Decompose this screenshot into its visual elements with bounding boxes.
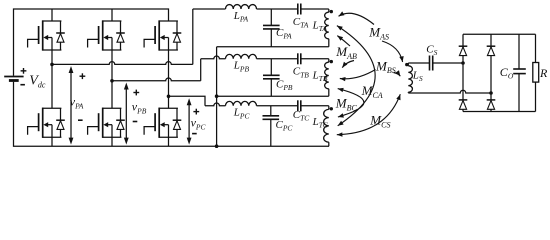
svg-text:CS: CS — [426, 44, 437, 58]
svg-text:CO: CO — [500, 65, 514, 81]
svg-text:MAB: MAB — [335, 44, 357, 61]
svg-text:vPA: vPA — [70, 95, 84, 111]
svg-text:MBS: MBS — [375, 58, 396, 75]
svg-text:Vdc: Vdc — [29, 74, 46, 90]
svg-text:LS: LS — [412, 69, 423, 83]
svg-text:CTA: CTA — [293, 16, 309, 30]
svg-text:LPC: LPC — [233, 107, 251, 121]
svg-text:CPA: CPA — [276, 27, 292, 41]
svg-text:MAS: MAS — [368, 25, 389, 42]
svg-text:CPC: CPC — [276, 119, 294, 133]
svg-text:vPB: vPB — [132, 100, 147, 116]
svg-text:CPB: CPB — [276, 79, 293, 93]
svg-text:MBC: MBC — [335, 96, 358, 113]
svg-text:MCA: MCA — [361, 83, 383, 100]
svg-text:CTB: CTB — [293, 66, 310, 80]
svg-text:LTB: LTB — [312, 69, 328, 83]
svg-text:LPA: LPA — [233, 10, 249, 24]
svg-text:R: R — [539, 66, 548, 80]
svg-text:LPB: LPB — [233, 60, 250, 74]
svg-text:vPC: vPC — [191, 116, 207, 132]
